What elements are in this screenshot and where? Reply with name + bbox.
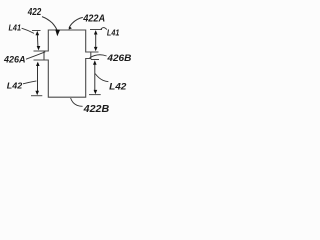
svg-text:L41: L41	[107, 27, 120, 37]
dimension L42 right: stem	[94, 63, 96, 93]
dimension L42 left: up arrowhead	[36, 62, 40, 66]
svg-text:422B: 422B	[83, 104, 110, 115]
leader L41 right	[101, 28, 107, 30]
svg-text:422A: 422A	[82, 14, 105, 25]
svg-text:426B: 426B	[106, 53, 131, 64]
tick: left tab-bottom extension	[34, 59, 45, 61]
arrowhead 422	[55, 29, 60, 36]
leader 426B	[90, 55, 107, 58]
dimension L41 left: stem	[36, 33, 39, 48]
svg-text:426A: 426A	[3, 54, 25, 64]
leader L41 left	[22, 28, 34, 33]
leader L42 right	[95, 74, 108, 82]
dimension L41 left: down arrowhead	[37, 46, 41, 50]
dimension L42 left: down arrowhead	[35, 91, 39, 95]
svg-text:L42: L42	[7, 80, 23, 90]
arrowhead 422A	[69, 26, 72, 29]
leader 422B	[71, 98, 83, 106]
background	[0, 0, 135, 120]
tick: left top extension	[32, 30, 41, 32]
tick: right tab-top extension	[91, 51, 99, 53]
dimension L41 left: up arrowhead	[36, 31, 40, 35]
dimension L42 right: up arrowhead	[93, 60, 97, 64]
dimension L42 right: down arrowhead	[94, 90, 98, 94]
tick: right top	[90, 29, 102, 31]
tick: right tab-bottom extension	[91, 59, 99, 61]
svg-text:L42: L42	[109, 82, 126, 92]
svg-text:L41: L41	[9, 24, 22, 33]
leader 422A	[69, 17, 83, 28]
leader L42 left	[23, 81, 36, 84]
dimension L41 right: stem	[95, 32, 97, 49]
leader 422 (curve from label to big arrowhead)	[42, 17, 57, 30]
tick: left bottom	[31, 95, 42, 97]
dimension L42 left: stem	[37, 63, 39, 93]
tick: left tab-top extension	[34, 50, 45, 52]
dimension L41 right: down arrowhead	[94, 47, 98, 51]
svg-text:422: 422	[27, 7, 42, 18]
body outline 422 (column with side tabs 426A/426B)	[44, 30, 91, 97]
dimension L41 right: up arrowhead	[94, 30, 98, 34]
tick: right bottom	[89, 94, 101, 96]
leader 426A	[26, 52, 45, 59]
